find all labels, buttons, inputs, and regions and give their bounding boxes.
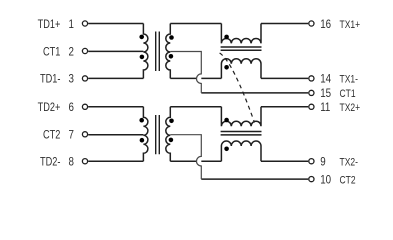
polarity dot T2 primary lower — [140, 138, 145, 143]
svg-text:10: 10 — [320, 174, 331, 187]
wire pin2 to T1 primary center tap — [88, 50, 143, 52]
polarity dot T1 secondary lower — [169, 54, 174, 59]
wire CMC2 winding B to pin 9 — [261, 160, 308, 162]
svg-text:9: 9 — [320, 156, 325, 169]
pin 16 terminal — [309, 21, 314, 26]
transformer T2 core — [156, 115, 160, 154]
svg-text:CT1: CT1 — [340, 88, 356, 100]
wire hop mask at CT2 crossing — [197, 156, 202, 166]
choke CMC2 winding B (TX2-) — [221, 141, 261, 161]
polarity dot T1 secondary top — [169, 35, 174, 40]
pin 15 terminal — [309, 90, 314, 95]
wire CMC1 winding A to pin 16 — [261, 23, 308, 25]
choke CMC1 winding A (TX1+) — [221, 24, 261, 44]
svg-text:8: 8 — [68, 156, 73, 169]
svg-text:1: 1 — [68, 18, 73, 31]
pin 11 terminal — [309, 104, 314, 109]
dashed coupling line between CMC1 and CMC2 — [220, 53, 255, 123]
choke CMC2 winding A (TX2+) — [221, 107, 261, 126]
polarity dot T1 primary lower — [140, 55, 145, 60]
wire T1 secondary center tap CT1 (hops over TX1- rail) — [170, 52, 201, 93]
polarity dot T1 primary top — [139, 35, 144, 40]
wire pin8 to T2 primary bottom — [88, 160, 143, 162]
pin 10 terminal — [309, 177, 314, 182]
pin 6 terminal — [82, 104, 87, 109]
wire hop mask at CT1 crossing — [197, 74, 202, 84]
svg-text:11: 11 — [320, 101, 330, 114]
wire T2 secondary center tap CT2 (hops over TX2- rail) — [170, 135, 201, 179]
polarity dot T2 secondary top — [169, 119, 174, 124]
svg-text:CT1: CT1 — [43, 46, 61, 58]
polarity dot CMC2 winding B — [224, 147, 229, 152]
transformer T1 primary winding — [143, 24, 148, 79]
pin 7 terminal — [82, 132, 87, 137]
svg-text:TD2-: TD2- — [40, 157, 60, 169]
svg-text:14: 14 — [320, 73, 331, 86]
wire CT2 tap to pin 10 — [201, 178, 308, 180]
wire T1 secondary bottom to CMC1 winding B — [170, 77, 221, 79]
svg-text:3: 3 — [68, 73, 73, 86]
choke CMC1 winding B (TX1-) — [221, 59, 261, 79]
svg-text:TD1-: TD1- — [40, 74, 60, 86]
polarity dot T2 primary top — [139, 118, 144, 123]
svg-text:CT2: CT2 — [340, 174, 356, 186]
pin 2 terminal — [82, 48, 87, 53]
svg-text:7: 7 — [68, 129, 73, 142]
svg-text:TX2-: TX2- — [340, 156, 358, 168]
choke CMC2 core — [221, 132, 262, 135]
svg-text:TX1+: TX1+ — [340, 19, 361, 31]
svg-text:16: 16 — [320, 18, 331, 31]
svg-text:15: 15 — [320, 88, 331, 101]
transformer T1 core — [156, 32, 160, 72]
transformer T2 primary winding — [143, 107, 148, 161]
polarity dot CMC1 winding A — [224, 35, 229, 40]
wire T2 secondary bottom to CMC2 winding B — [170, 160, 221, 162]
pin 8 terminal — [82, 159, 87, 164]
svg-text:TX1-: TX1- — [340, 74, 358, 86]
svg-text:TX2+: TX2+ — [340, 102, 361, 114]
polarity dot T2 secondary lower — [169, 138, 174, 143]
pin 1 terminal — [82, 21, 87, 26]
pin 9 terminal — [309, 159, 314, 164]
wire CMC2 winding A to pin 11 — [261, 106, 308, 108]
svg-text:6: 6 — [68, 101, 73, 114]
pin 14 terminal — [309, 76, 314, 81]
wire pin3 to T1 primary bottom — [88, 77, 143, 79]
wire CT1 tap to pin 15 — [201, 92, 308, 94]
svg-text:TD1+: TD1+ — [38, 19, 61, 31]
polarity dot CMC1 winding B — [224, 65, 229, 70]
transformer T2 secondary winding — [166, 107, 171, 161]
choke CMC1 core — [221, 47, 262, 50]
pin 3 terminal — [82, 76, 87, 81]
wire T2 secondary top to CMC2 winding A — [170, 106, 221, 108]
wire T1 secondary top to CMC1 winding A — [170, 23, 221, 25]
svg-text:2: 2 — [68, 46, 73, 59]
svg-text:TD2+: TD2+ — [38, 102, 61, 114]
wire pin7 to T2 primary center tap — [88, 134, 143, 136]
wire CMC1 winding B to pin 14 — [261, 77, 308, 79]
svg-text:CT2: CT2 — [43, 130, 61, 142]
transformer T1 secondary winding — [166, 24, 171, 79]
wire pin1 to T1 primary top — [88, 23, 143, 25]
polarity dot CMC2 winding A — [224, 118, 229, 123]
wire pin6 to T2 primary top — [88, 106, 143, 108]
